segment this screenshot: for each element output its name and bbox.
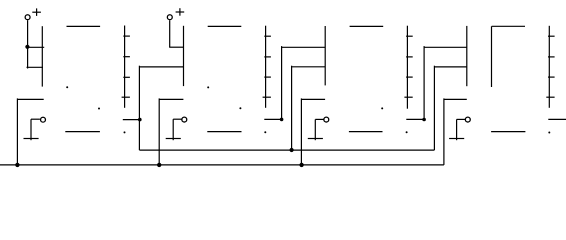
wire under E2 bbox=[123, 119, 141, 121]
anode column stage4 bbox=[466, 26, 468, 86]
tap 3 of E8 bbox=[548, 76, 555, 78]
junction dot on ground rail stage1 bbox=[15, 163, 19, 167]
tap 1 of E2 bbox=[123, 35, 130, 37]
wire segment top span4 with corner bbox=[492, 26, 526, 87]
tapped electrode stack E2 bbox=[124, 26, 126, 108]
wire H2 stage1 bbox=[27, 66, 44, 68]
supply terminal P1 (open circle) bbox=[25, 15, 30, 20]
cathode return wire stage2 bbox=[159, 98, 183, 164]
wire H2 stage3 bbox=[292, 66, 326, 68]
tap 2 of E4 bbox=[264, 56, 271, 58]
starter electrode E1 (circle) bbox=[31, 117, 45, 122]
riser to bus stage4 bbox=[433, 66, 435, 150]
wire from P2 down bbox=[169, 20, 171, 47]
anode column stage3 bbox=[324, 26, 326, 85]
cathode return wire stage1 bbox=[17, 98, 43, 164]
contact bar stage3 bbox=[308, 138, 323, 140]
wire H1 stage3 bbox=[282, 46, 326, 48]
plus label at P2 bbox=[176, 8, 185, 16]
junction dot under E2 bbox=[138, 118, 142, 122]
plus label at P1 bbox=[32, 8, 41, 16]
tap 2 of E8 bbox=[548, 56, 555, 58]
anode column stage2 bbox=[183, 26, 185, 86]
tap 4 of E2 bbox=[122, 96, 130, 98]
tap 1 of E6 bbox=[406, 35, 413, 37]
contact bar stage4 bbox=[449, 138, 464, 140]
electrode stem stage4 bbox=[456, 119, 458, 140]
wire H1 stage1 bbox=[27, 46, 44, 48]
tap 1 of E4 bbox=[264, 35, 271, 37]
junction dot under E4 bbox=[280, 118, 284, 122]
junction dot on ground rail stage2 bbox=[157, 163, 161, 167]
wire segment lower span2 bbox=[207, 131, 241, 133]
junction dot on P1 wire bbox=[25, 45, 29, 49]
wire H1 stage4 bbox=[424, 46, 467, 48]
wire under E4 bbox=[264, 118, 282, 120]
ground rail B2 bbox=[0, 164, 444, 166]
tap 2 of E6 bbox=[406, 56, 413, 58]
junction dot on ground rail stage3 bbox=[299, 163, 303, 167]
wire segment top span2 bbox=[208, 25, 242, 27]
tap 4 of E6 bbox=[404, 96, 412, 98]
starter electrode E5 (circle) bbox=[315, 117, 328, 122]
electrode stem stage2 bbox=[172, 119, 174, 140]
tap 4 of E4 bbox=[263, 96, 271, 98]
cathode return wire stage3 bbox=[301, 98, 325, 164]
cathode return wire stage4 bbox=[444, 98, 467, 164]
wire segment lower span1 bbox=[65, 131, 100, 133]
tapped electrode stack E4 bbox=[265, 26, 267, 108]
wire segment top span1 bbox=[67, 25, 101, 27]
riser to bus stage3 bbox=[291, 66, 293, 150]
riser wire stage2 bbox=[138, 66, 140, 150]
tap 1 of E8 bbox=[548, 35, 555, 37]
tap 3 of E4 bbox=[264, 76, 271, 78]
electrode stem stage1 bbox=[30, 119, 32, 140]
tap 2 of E2 bbox=[123, 56, 130, 58]
wire segment lower span4 bbox=[491, 131, 525, 133]
wire from P1 down bbox=[27, 20, 29, 68]
wire segment lower span3 bbox=[349, 131, 383, 133]
wire under E6 bbox=[406, 118, 424, 120]
anode column stage1 bbox=[41, 26, 43, 86]
tap 4 of E8 bbox=[546, 96, 554, 98]
starter electrode E7 (circle) bbox=[457, 117, 471, 122]
starter electrode E3 (circle) bbox=[173, 117, 187, 122]
bus wire B1 bbox=[139, 149, 434, 151]
wire H2 stage4 bbox=[434, 66, 466, 68]
supply terminal P2 (open circle) bbox=[167, 15, 172, 20]
contact bar stage1 bbox=[24, 138, 39, 140]
wire H1 stage2 bbox=[169, 46, 183, 48]
riser wire stage3 bbox=[281, 46, 283, 119]
tapped electrode stack E6 bbox=[406, 26, 408, 109]
tapped electrode stack E8 bbox=[548, 26, 550, 108]
wire under E8 bbox=[548, 118, 566, 120]
contact bar stage2 bbox=[166, 138, 181, 140]
tap 3 of E6 bbox=[406, 76, 413, 78]
riser wire stage4 bbox=[423, 46, 425, 119]
wire segment top span3 bbox=[350, 25, 384, 27]
junction dot on bus B1 stage3 bbox=[290, 148, 294, 152]
tap 3 of E2 bbox=[123, 76, 130, 78]
junction dot under E6 bbox=[422, 118, 426, 122]
electrode stem stage3 bbox=[314, 119, 316, 140]
wire H2 stage2 bbox=[139, 66, 183, 68]
